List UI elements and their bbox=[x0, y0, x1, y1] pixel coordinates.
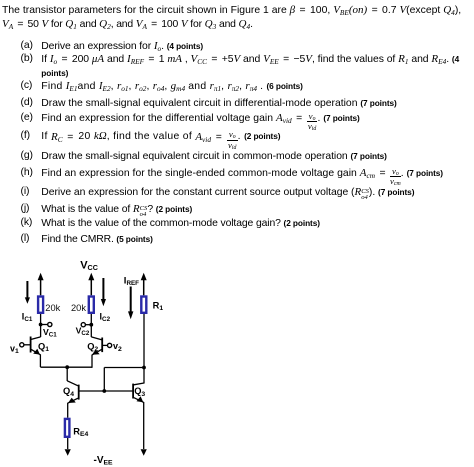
svg-text:20k: 20k bbox=[45, 303, 60, 313]
svg-text:Q4: Q4 bbox=[63, 386, 74, 398]
svg-text:v1: v1 bbox=[10, 343, 19, 355]
svg-text:20k: 20k bbox=[71, 303, 86, 313]
svg-text:R1: R1 bbox=[153, 301, 164, 313]
svg-text:Q2: Q2 bbox=[87, 342, 98, 354]
svg-text:IREF: IREF bbox=[124, 275, 139, 287]
svg-text:IC1: IC1 bbox=[22, 311, 33, 323]
svg-text:IC2: IC2 bbox=[100, 311, 111, 323]
svg-text:VC1: VC1 bbox=[43, 327, 57, 338]
svg-text:Q1: Q1 bbox=[38, 342, 49, 354]
svg-text:RE4: RE4 bbox=[73, 427, 88, 439]
svg-text:VCC: VCC bbox=[80, 259, 98, 272]
svg-text:Q3: Q3 bbox=[134, 386, 145, 398]
svg-text:-VEE: -VEE bbox=[94, 455, 114, 467]
svg-text:v2: v2 bbox=[113, 341, 122, 353]
